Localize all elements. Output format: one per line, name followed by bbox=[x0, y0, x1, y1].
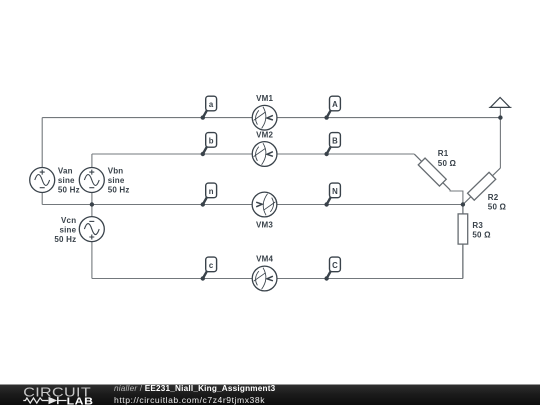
label R2 value bbox=[488, 193, 507, 212]
label VM4 bbox=[256, 255, 273, 264]
wire right column C to R3 bbox=[462, 244, 464, 278]
svg-text:50 Hz: 50 Hz bbox=[108, 185, 130, 194]
terminal flag C bbox=[324, 257, 340, 281]
label R3 value bbox=[472, 221, 491, 240]
node junction top right bbox=[498, 115, 502, 119]
svg-text:N: N bbox=[332, 187, 338, 196]
svg-text:50 Ω: 50 Ω bbox=[472, 231, 491, 240]
wire row N horizontal bbox=[42, 204, 463, 206]
node junction Y center bbox=[461, 202, 465, 206]
wire row B horizontal bbox=[92, 153, 415, 155]
footer credit line bbox=[114, 384, 276, 393]
svg-text:C: C bbox=[332, 261, 338, 270]
label VM3 bbox=[256, 220, 273, 229]
wire Vcn top riser bbox=[91, 205, 93, 217]
voltmeter VM1 bbox=[252, 105, 277, 130]
svg-text:http://circuitlab.com/c7z4r9tj: http://circuitlab.com/c7z4r9tjmx38k bbox=[114, 395, 265, 405]
svg-text:R3: R3 bbox=[472, 221, 483, 230]
svg-text:50 Ω: 50 Ω bbox=[488, 203, 507, 212]
svg-text:Vcn: Vcn bbox=[61, 216, 76, 225]
svg-text:Van: Van bbox=[58, 167, 73, 176]
wire R1 output bend bbox=[450, 190, 463, 205]
footer bar bbox=[0, 385, 540, 405]
label VM2 bbox=[256, 131, 273, 140]
resistor R3 bbox=[458, 205, 468, 279]
node junction Vbn/Vcn bbox=[90, 202, 94, 206]
voltmeter VM2 bbox=[252, 142, 277, 167]
svg-text:sine: sine bbox=[58, 176, 75, 185]
svg-text:B: B bbox=[332, 137, 338, 146]
svg-text:sine: sine bbox=[108, 176, 125, 185]
svg-text:R1: R1 bbox=[438, 149, 449, 158]
svg-text:sine: sine bbox=[59, 226, 76, 235]
svg-text:50 Hz: 50 Hz bbox=[54, 235, 76, 244]
terminal flag n bbox=[201, 183, 217, 207]
terminal flag N bbox=[324, 183, 340, 207]
label Van value bbox=[58, 167, 80, 195]
wire Vbn bottom riser bbox=[91, 192, 93, 204]
wire Vbn top riser bbox=[91, 154, 93, 168]
terminal flag a bbox=[201, 96, 217, 120]
terminal flag b bbox=[201, 133, 217, 157]
CircuitLab logo resistor-diode symbol bbox=[23, 397, 66, 404]
voltmeter VM4 bbox=[252, 266, 277, 291]
label Vbn value bbox=[108, 167, 130, 195]
svg-text:R2: R2 bbox=[488, 193, 499, 202]
terminal flag c bbox=[201, 257, 217, 281]
svg-text:c: c bbox=[209, 261, 214, 270]
CircuitLab logotype CIRCUIT bbox=[23, 386, 91, 400]
resistor R2 bbox=[463, 168, 501, 205]
label R1 value bbox=[438, 149, 457, 168]
svg-text:LAB: LAB bbox=[67, 396, 94, 405]
label VM1 bbox=[256, 94, 273, 103]
CircuitLab logotype LAB bbox=[67, 396, 94, 405]
svg-text:nialler / EE231_Niall_King_Ass: nialler / EE231_Niall_King_Assignment3 bbox=[114, 384, 276, 393]
voltmeter VM3 bbox=[252, 192, 277, 217]
terminal flag A bbox=[324, 96, 340, 120]
voltage source Vcn bbox=[79, 217, 104, 242]
wire Van top riser bbox=[41, 118, 43, 168]
svg-text:n: n bbox=[209, 187, 214, 196]
label Vcn value bbox=[54, 216, 76, 244]
wire top right vertical to R2 bbox=[499, 118, 501, 168]
voltage source Van bbox=[30, 168, 55, 193]
voltage source Vbn bbox=[79, 168, 104, 193]
wire Vcn bottom riser bbox=[91, 241, 93, 278]
svg-text:b: b bbox=[209, 137, 214, 146]
svg-text:VM3: VM3 bbox=[256, 220, 273, 229]
svg-text:50 Ω: 50 Ω bbox=[438, 159, 457, 168]
footer url line bbox=[114, 395, 265, 405]
resistor R1 bbox=[414, 154, 450, 190]
terminal flag B bbox=[324, 133, 340, 157]
svg-text:a: a bbox=[209, 100, 214, 109]
wire Van bottom riser bbox=[41, 192, 43, 204]
wire row A horizontal bbox=[42, 117, 500, 119]
antenna symbol top right bbox=[489, 98, 512, 118]
svg-text:50 Hz: 50 Hz bbox=[58, 185, 80, 194]
svg-text:VM4: VM4 bbox=[256, 255, 273, 264]
svg-text:A: A bbox=[332, 100, 338, 109]
svg-text:VM1: VM1 bbox=[256, 94, 273, 103]
svg-text:VM2: VM2 bbox=[256, 131, 273, 140]
svg-text:Vbn: Vbn bbox=[108, 167, 124, 176]
wire row C horizontal bbox=[92, 278, 463, 280]
